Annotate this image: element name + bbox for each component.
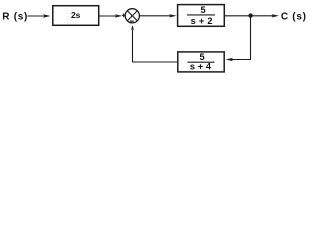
svg-text:C (s): C (s) [281, 12, 306, 23]
svg-text:2s: 2s [71, 10, 81, 20]
svg-text:s + 2: s + 2 [191, 16, 213, 26]
svg-text:5: 5 [200, 5, 205, 15]
svg-text:5: 5 [199, 52, 204, 62]
svg-text:R (s): R (s) [2, 12, 28, 23]
svg-text:s + 4: s + 4 [190, 62, 212, 72]
